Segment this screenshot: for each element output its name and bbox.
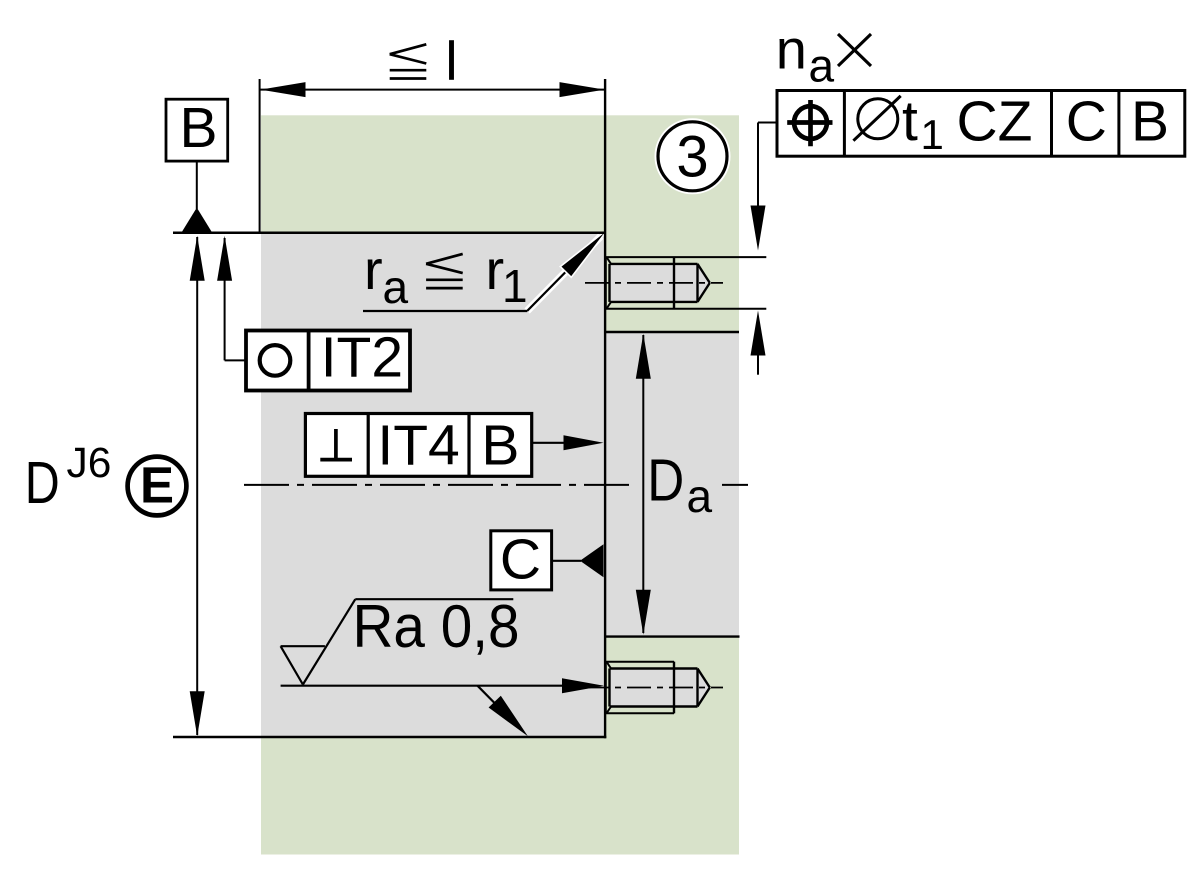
svg-text:B: B <box>1131 89 1169 153</box>
svg-text:a: a <box>809 40 835 92</box>
svg-text:1: 1 <box>502 260 528 312</box>
svg-text:t: t <box>902 89 918 153</box>
svg-text:CZ: CZ <box>957 89 1033 153</box>
svg-text:D: D <box>25 450 60 516</box>
svg-text:C: C <box>1066 89 1107 153</box>
svg-text:E: E <box>140 457 174 514</box>
svg-text:n: n <box>776 18 807 81</box>
svg-text:B: B <box>481 414 519 478</box>
svg-text:r: r <box>364 238 383 301</box>
svg-text:1: 1 <box>921 111 944 158</box>
svg-text:C: C <box>500 528 541 592</box>
svg-text:J6: J6 <box>67 440 112 487</box>
svg-text:a: a <box>383 261 409 313</box>
svg-text:Ra 0,8: Ra 0,8 <box>353 593 520 660</box>
svg-text:D: D <box>647 447 684 513</box>
svg-text:3: 3 <box>676 125 708 190</box>
svg-text:B: B <box>179 96 217 160</box>
svg-text:IT4: IT4 <box>377 414 459 478</box>
svg-text:IT2: IT2 <box>321 325 403 389</box>
svg-text:a: a <box>687 470 713 522</box>
